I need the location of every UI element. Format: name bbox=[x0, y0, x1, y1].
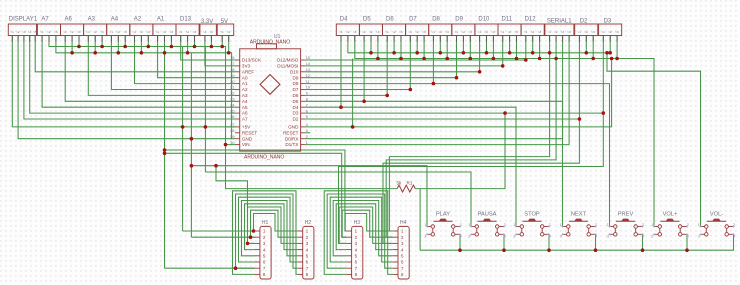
svg-text:14: 14 bbox=[306, 62, 310, 66]
pin 3 of H2 bbox=[297, 241, 308, 246]
wire pin2 D5 drop bbox=[370, 36, 372, 53]
svg-text:>3: >3 bbox=[538, 30, 542, 34]
junction NEXT ground bbox=[594, 248, 598, 252]
wire right upper rail bbox=[348, 36, 610, 53]
svg-text:RESET: RESET bbox=[242, 130, 258, 135]
svg-text:>2: >2 bbox=[47, 30, 51, 34]
svg-text:D11: D11 bbox=[502, 17, 513, 23]
pin 6 of H1 bbox=[255, 260, 266, 265]
connector D13 bbox=[176, 24, 199, 36]
junction D2 column bbox=[578, 117, 582, 121]
svg-text:A3: A3 bbox=[242, 93, 248, 98]
wire D3 pin3 drop bbox=[616, 36, 618, 59]
wire D4 row to STOP bbox=[305, 107, 516, 226]
svg-text:D13/SCK: D13/SCK bbox=[242, 58, 262, 63]
svg-text:3: 3 bbox=[306, 129, 308, 133]
wire pin3 A2 drop bbox=[147, 36, 149, 47]
connector A4 bbox=[107, 24, 130, 36]
svg-text:20: 20 bbox=[230, 80, 234, 84]
svg-text:D9: D9 bbox=[455, 17, 463, 23]
wire D3 pin2 drop bbox=[609, 36, 611, 53]
wire D2 pin1 to D2 row bbox=[305, 36, 579, 120]
svg-text:>1: >1 bbox=[362, 30, 366, 34]
svg-text:>4: >4 bbox=[567, 30, 571, 34]
pin 26 A7 of U1 (left) bbox=[230, 115, 248, 121]
svg-text:25: 25 bbox=[230, 109, 234, 113]
wire H1-H2 arch pin 1 bbox=[254, 214, 298, 232]
svg-text:>2: >2 bbox=[369, 30, 373, 34]
svg-text:A3: A3 bbox=[88, 17, 96, 23]
pin 30 VIN of U1 (left) bbox=[230, 141, 249, 147]
wire H3-H4 arch pin 2 bbox=[342, 210, 392, 237]
svg-text:29: 29 bbox=[230, 135, 234, 139]
svg-text:>1: >1 bbox=[156, 30, 160, 34]
pin 1 of H2 bbox=[297, 229, 308, 234]
wire D2 extension to H4 pin3 bbox=[383, 119, 579, 243]
svg-text:>2: >2 bbox=[186, 30, 190, 34]
pin 6 of H4 bbox=[393, 260, 404, 265]
junction D2 pin2 bbox=[585, 51, 589, 55]
pin 5 D2 of U1 (right) bbox=[293, 115, 308, 121]
svg-text:D4: D4 bbox=[340, 17, 348, 23]
svg-text:>2: >2 bbox=[139, 30, 143, 34]
wire pin2 D10 drop bbox=[486, 36, 488, 53]
svg-text:A5: A5 bbox=[242, 105, 248, 110]
pin 2 of H3 bbox=[346, 235, 357, 240]
svg-text:>1: >1 bbox=[455, 30, 459, 34]
pin 19 A0 of U1 (left) bbox=[230, 74, 248, 80]
svg-text:>2: >2 bbox=[554, 30, 558, 34]
pin 6 D3 of U1 (right) bbox=[293, 109, 308, 115]
wire SERIAL1 pin2 drop bbox=[555, 36, 557, 59]
svg-text:>1: >1 bbox=[501, 30, 505, 34]
svg-text:>3: >3 bbox=[22, 30, 26, 34]
junction pin3 D7 bbox=[422, 57, 426, 61]
svg-text:D5: D5 bbox=[293, 99, 299, 104]
connector D12 bbox=[521, 24, 544, 36]
wire PLAY feed bbox=[191, 166, 427, 227]
wire pin3 D11 drop bbox=[516, 36, 518, 59]
pin 4 of H1 bbox=[255, 247, 266, 252]
junction GND branch on lower rail bbox=[610, 57, 614, 61]
junction D12 corner bbox=[524, 58, 528, 62]
connector A1 bbox=[153, 24, 176, 36]
svg-text:>2: >2 bbox=[116, 30, 120, 34]
svg-text:H1: H1 bbox=[262, 220, 269, 226]
svg-text:>1: >1 bbox=[408, 30, 412, 34]
svg-text:DISPLAY1: DISPLAY1 bbox=[9, 17, 38, 23]
junction pin3 D13 bbox=[193, 45, 197, 49]
junction pin2 D11 bbox=[508, 51, 512, 55]
svg-text:>2: >2 bbox=[415, 30, 419, 34]
wire D6 row bbox=[305, 94, 387, 96]
svg-text:>1: >1 bbox=[63, 30, 67, 34]
wire 3.3V pin2 drop bbox=[210, 36, 212, 47]
junction pin3 A4 bbox=[123, 45, 127, 49]
junction column 191 on GND row bbox=[190, 137, 194, 141]
wire pin3 D7 drop bbox=[423, 36, 425, 59]
wire pin3 D8 drop bbox=[446, 36, 448, 59]
junction H1 pin3 bbox=[246, 242, 250, 246]
pin 23 A4 of U1 (left) bbox=[230, 98, 248, 104]
wire R1 right rail bbox=[415, 113, 505, 189]
wire SERIAL1 pin2 extension to H4 pin2 bbox=[386, 59, 556, 238]
svg-text:>1: >1 bbox=[40, 30, 44, 34]
svg-text:12: 12 bbox=[306, 74, 310, 78]
junction 5V pin2 bbox=[227, 51, 231, 55]
junction H1 pin1 bbox=[252, 229, 256, 233]
svg-text:D7: D7 bbox=[293, 87, 299, 92]
svg-text:ARDUINO_NANO: ARDUINO_NANO bbox=[244, 155, 284, 161]
svg-text:22: 22 bbox=[230, 92, 234, 96]
wire D7 column bbox=[409, 36, 411, 90]
junction D11 corner bbox=[501, 64, 505, 68]
svg-text:>3: >3 bbox=[591, 30, 595, 34]
wire D8 column bbox=[432, 36, 434, 84]
svg-text:VIN: VIN bbox=[242, 142, 250, 147]
wire pin3 D9 drop bbox=[469, 36, 471, 59]
connector A7 bbox=[37, 24, 60, 36]
svg-text:D3: D3 bbox=[293, 111, 299, 116]
junction pin2 A3 bbox=[93, 51, 97, 55]
junction VOL- branch on upper rail bbox=[605, 51, 609, 55]
wire H1 pin3 feed bbox=[216, 166, 255, 244]
wire pin2 A4 drop bbox=[117, 36, 119, 53]
svg-text:>1: >1 bbox=[524, 30, 528, 34]
pin 8 of H1 bbox=[255, 272, 266, 277]
connector D6 bbox=[383, 24, 406, 36]
svg-text:PAUSA: PAUSA bbox=[478, 212, 497, 218]
svg-text:D6: D6 bbox=[293, 93, 299, 98]
pin 4 of H4 bbox=[393, 247, 404, 252]
pin 17 3V3 of U1 (left) bbox=[230, 62, 250, 68]
pin 5 of H1 bbox=[255, 254, 266, 259]
svg-text:A4: A4 bbox=[242, 99, 248, 104]
svg-text:10: 10 bbox=[306, 86, 310, 90]
wire column 205 trunk bbox=[204, 47, 206, 173]
connector DISPLAY1 bbox=[8, 24, 36, 36]
wire PLAY drop to ground bbox=[459, 234, 461, 250]
svg-text:H3: H3 bbox=[354, 220, 361, 226]
wire NEXT drop to ground bbox=[595, 234, 597, 250]
wire SERIAL1 pin4 to D1/TX bbox=[305, 36, 569, 145]
svg-text:>1: >1 bbox=[431, 30, 435, 34]
connector A3 bbox=[84, 24, 107, 36]
wire D3 pin1 to D3 row bbox=[305, 36, 603, 114]
wire SERIAL1 pin3 to D0/RX bbox=[305, 36, 562, 139]
wire pin3 A4 drop bbox=[124, 36, 126, 47]
svg-text:16: 16 bbox=[230, 56, 234, 60]
wire pin2 D13 drop bbox=[187, 36, 189, 53]
svg-text:8: 8 bbox=[306, 98, 308, 102]
wire A1 pin1 to A0 bbox=[158, 36, 235, 78]
svg-text:>3: >3 bbox=[146, 30, 150, 34]
wire 3.3V pin1 to 3V3 bbox=[205, 36, 235, 66]
svg-text:>3: >3 bbox=[193, 30, 197, 34]
junction STOP ground bbox=[547, 248, 551, 252]
junction D8 column bbox=[432, 82, 436, 86]
svg-text:6: 6 bbox=[306, 109, 308, 113]
pin 2 D0/RX of U1 (right) bbox=[285, 135, 308, 141]
svg-text:>1: >1 bbox=[577, 30, 581, 34]
junction pin3 D6 bbox=[399, 57, 403, 61]
svg-text:D0/RX: D0/RX bbox=[285, 136, 299, 141]
svg-text:AREF: AREF bbox=[242, 69, 254, 74]
wire SERIAL1 pin1 drop bbox=[549, 36, 551, 53]
pin 1 D1/TX of U1 (right) bbox=[285, 141, 308, 147]
wire VIN row bbox=[226, 144, 236, 146]
connector pin stubs bbox=[12, 36, 617, 42]
junction pin3 A6 bbox=[77, 45, 81, 49]
svg-text:4: 4 bbox=[306, 123, 308, 127]
wire PAUSA drop to ground bbox=[503, 234, 505, 250]
junction pin3 D8 bbox=[445, 57, 449, 61]
junction 3.3V pin2 bbox=[210, 45, 214, 49]
junction PAUSA ground bbox=[502, 248, 506, 252]
wire A6 pin1 to A4 bbox=[65, 36, 235, 102]
wire GND rail left bbox=[56, 36, 235, 139]
svg-text:>2: >2 bbox=[461, 30, 465, 34]
svg-text:>1: >1 bbox=[339, 30, 343, 34]
svg-text:A6: A6 bbox=[242, 111, 248, 116]
pin 6 of H3 bbox=[346, 260, 357, 265]
svg-text:26: 26 bbox=[230, 115, 234, 119]
svg-text:13: 13 bbox=[306, 68, 310, 72]
wire D2 pin2 drop bbox=[585, 36, 587, 53]
wire PAUSA feed bbox=[205, 172, 471, 227]
wire A7 pin1 to A5 bbox=[42, 36, 235, 108]
svg-text:GND: GND bbox=[288, 125, 299, 130]
svg-text:D1/TX: D1/TX bbox=[285, 142, 298, 147]
svg-text:VOL-: VOL- bbox=[710, 212, 723, 218]
pin 28 RESET of U1 (left) bbox=[230, 129, 257, 135]
wire 5V pin2 drop bbox=[228, 36, 230, 53]
header H1 body bbox=[260, 226, 271, 279]
pushbutton PAUSA bbox=[468, 212, 506, 239]
wire pin3 D12 drop bbox=[539, 36, 541, 59]
svg-text:>3: >3 bbox=[515, 30, 519, 34]
svg-text:D11/MOSI: D11/MOSI bbox=[277, 64, 298, 69]
junction pin2 D6 bbox=[392, 51, 396, 55]
header H3 body bbox=[352, 226, 363, 279]
junction D10 corner bbox=[478, 70, 482, 74]
wire DISPLAY1 pin3 to A7 bbox=[24, 36, 235, 120]
svg-text:U1: U1 bbox=[274, 34, 281, 40]
svg-text:18: 18 bbox=[230, 68, 234, 72]
svg-text:23: 23 bbox=[230, 98, 234, 102]
svg-text:19: 19 bbox=[230, 74, 234, 78]
connector D5 bbox=[359, 24, 382, 36]
svg-text:>3: >3 bbox=[468, 30, 472, 34]
svg-text:PREV: PREV bbox=[618, 212, 634, 218]
wire column 182 trunk bbox=[182, 47, 184, 232]
svg-text:11: 11 bbox=[306, 80, 310, 84]
svg-text:D6: D6 bbox=[386, 17, 394, 23]
svg-text:VOL+: VOL+ bbox=[663, 212, 678, 218]
wire D10 pin1 to D10 bbox=[305, 36, 479, 72]
svg-text:>3: >3 bbox=[169, 30, 173, 34]
junction SERIAL1 pin2 bbox=[554, 57, 558, 61]
header H4 body bbox=[398, 226, 409, 279]
wire H3-H4 arch pin 3 bbox=[339, 207, 392, 243]
wire pin2 D7 drop bbox=[416, 36, 418, 53]
junction D4 column bbox=[339, 105, 343, 109]
wire pull-down to ground rail bbox=[419, 189, 421, 251]
pin 7 of H2 bbox=[297, 266, 308, 271]
pin 7 D4 of U1 (right) bbox=[293, 103, 308, 109]
junction pin2 D8 bbox=[439, 51, 443, 55]
svg-text:>2: >2 bbox=[392, 30, 396, 34]
svg-text:27: 27 bbox=[230, 123, 234, 127]
wire pin2 D6 drop bbox=[393, 36, 395, 53]
junction H1 pin2 bbox=[249, 235, 253, 239]
connector D2 bbox=[575, 24, 598, 36]
wire D6 column bbox=[386, 36, 388, 96]
pin 5 of H4 bbox=[393, 254, 404, 259]
arduino nano top notch bbox=[257, 44, 277, 49]
svg-text:>2: >2 bbox=[584, 30, 588, 34]
wire D5 column bbox=[363, 36, 365, 102]
wire H1-H2 arch pin 7 bbox=[236, 194, 298, 268]
junction 5V pin1 bbox=[220, 45, 224, 49]
wire pin3 A3 drop bbox=[101, 36, 103, 47]
svg-text:D5: D5 bbox=[363, 17, 371, 23]
wire pin3 D13 drop bbox=[194, 36, 196, 47]
pin 5 of H2 bbox=[297, 254, 308, 259]
junction pin2 D10 bbox=[485, 51, 489, 55]
pushbutton PREV bbox=[607, 212, 645, 239]
svg-text:D10: D10 bbox=[478, 17, 490, 23]
svg-text:SERIAL1: SERIAL1 bbox=[547, 19, 572, 25]
svg-text:30: 30 bbox=[230, 141, 234, 145]
svg-text:21: 21 bbox=[230, 86, 234, 90]
svg-text:>2: >2 bbox=[70, 30, 74, 34]
svg-text:>1: >1 bbox=[10, 30, 14, 34]
svg-text:>2: >2 bbox=[531, 30, 535, 34]
wire D12 pin1 to D12/MISO bbox=[305, 36, 526, 61]
junction PREV ground bbox=[641, 248, 645, 252]
connector 5V bbox=[217, 24, 234, 36]
svg-text:>1: >1 bbox=[179, 30, 183, 34]
wire H1 pin7 feed bbox=[165, 267, 255, 269]
pin 11 D8 of U1 (right) bbox=[293, 80, 310, 86]
connector D3 bbox=[599, 24, 622, 36]
wire pin2 D11 drop bbox=[509, 36, 511, 53]
svg-text:>4: >4 bbox=[28, 30, 32, 34]
svg-text:>1: >1 bbox=[385, 30, 389, 34]
pin 7 of H4 bbox=[393, 266, 404, 271]
svg-text:D7: D7 bbox=[409, 17, 417, 23]
pin 4 GND of U1 (right) bbox=[288, 123, 308, 129]
junction pin2 D5 bbox=[369, 51, 373, 55]
pushbutton STOP bbox=[513, 212, 551, 239]
svg-text:>3: >3 bbox=[123, 30, 127, 34]
svg-text:D2: D2 bbox=[293, 117, 299, 122]
svg-text:R1: R1 bbox=[407, 181, 413, 186]
svg-text:A2: A2 bbox=[134, 17, 142, 23]
wire RESET right stub bbox=[305, 132, 310, 134]
header H2 body bbox=[303, 226, 314, 279]
wire GND row right bbox=[305, 59, 611, 127]
svg-text:A6: A6 bbox=[65, 17, 73, 23]
junction pin2 D9 bbox=[462, 51, 466, 55]
wire pin3 D10 drop bbox=[492, 36, 494, 59]
svg-text:>3: >3 bbox=[399, 30, 403, 34]
svg-text:A0: A0 bbox=[242, 75, 248, 80]
wire column 191 trunk bbox=[190, 53, 192, 237]
wire H1-H2 arch pin 2 bbox=[251, 210, 298, 237]
pin 27 +5V of U1 (left) bbox=[230, 123, 251, 129]
junction D3 pin3 bbox=[615, 57, 619, 61]
junction pin2 D13 bbox=[186, 51, 190, 55]
pin 1 of H4 bbox=[393, 229, 404, 234]
wire D11 pin1 to D11/MOSI bbox=[305, 36, 502, 66]
svg-text:>3: >3 bbox=[353, 30, 357, 34]
svg-text:>3: >3 bbox=[54, 30, 58, 34]
svg-text:>2: >2 bbox=[438, 30, 442, 34]
pin 3 of H4 bbox=[393, 241, 404, 246]
svg-text:5: 5 bbox=[306, 115, 308, 119]
connector SERIAL1 bbox=[545, 24, 574, 36]
svg-text:>3: >3 bbox=[615, 30, 619, 34]
svg-text:>1: >1 bbox=[548, 30, 552, 34]
wire H3-H4 arch pin 4 bbox=[336, 204, 392, 250]
wire button ground rail bbox=[420, 234, 733, 250]
wire VOL+ drop to ground bbox=[686, 234, 688, 250]
pin 24 A5 of U1 (left) bbox=[230, 103, 248, 109]
pin 2 of H2 bbox=[297, 235, 308, 240]
wire A4 pin1 to A2 bbox=[111, 36, 235, 90]
junction D4 pin3 extension on GND row bbox=[351, 125, 355, 129]
junction pin3 A1 bbox=[170, 45, 174, 49]
svg-text:>2: >2 bbox=[93, 30, 97, 34]
wire H3-H4 arch pin 5 bbox=[333, 201, 392, 256]
wire H3-H4 arch pin 1 bbox=[345, 214, 392, 232]
wire pin2 D9 drop bbox=[462, 36, 464, 53]
junction pin2 D12 bbox=[531, 51, 535, 55]
svg-text:RESET: RESET bbox=[283, 130, 299, 135]
wire D13 pin1 to D13/SCK bbox=[181, 36, 235, 61]
pin 9 D6 of U1 (right) bbox=[293, 92, 308, 98]
pin 22 A3 of U1 (left) bbox=[230, 92, 248, 98]
wire VOL- feed from upper rail bbox=[607, 53, 701, 227]
svg-text:D8: D8 bbox=[432, 17, 440, 23]
connector D10 bbox=[475, 24, 498, 36]
svg-text:>5: >5 bbox=[33, 30, 37, 34]
pin 29 GND of U1 (left) bbox=[230, 135, 253, 141]
junction pin3 A2 bbox=[147, 45, 151, 49]
junction D3 pin2 bbox=[608, 51, 612, 55]
pin 4 of H2 bbox=[297, 247, 308, 252]
junction R1 rail to D3 row bbox=[503, 111, 507, 115]
pin 7 of H3 bbox=[346, 266, 357, 271]
pin 16 D13/SCK of U1 (left) bbox=[230, 56, 262, 62]
svg-text:GND: GND bbox=[242, 136, 253, 141]
svg-text:>1: >1 bbox=[203, 30, 207, 34]
svg-text:>3: >3 bbox=[561, 30, 565, 34]
wire DISPLAY1 pin4 to A6 bbox=[30, 36, 235, 114]
svg-text:24: 24 bbox=[230, 103, 234, 107]
pin 10 D7 of U1 (right) bbox=[293, 86, 311, 92]
svg-text:>2: >2 bbox=[163, 30, 167, 34]
junction pin2 A2 bbox=[140, 51, 144, 55]
pushbutton NEXT bbox=[560, 212, 598, 239]
wire SERIAL1 pin1 extension to H4 pin1 bbox=[389, 53, 549, 231]
junction VOL+ ground bbox=[685, 248, 689, 252]
connector 3.3V bbox=[200, 24, 217, 36]
wire D4 column bbox=[340, 36, 342, 108]
svg-text:>2: >2 bbox=[227, 30, 231, 34]
